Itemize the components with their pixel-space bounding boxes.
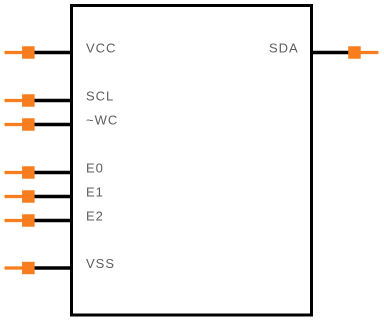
wire pin SCL [34, 99, 73, 102]
svg-text:VCC: VCC [86, 41, 116, 56]
pin label VSS [86, 256, 115, 271]
svg-text:E0: E0 [86, 161, 104, 176]
pin label E2 [86, 209, 104, 224]
wire pin VSS [34, 266, 73, 269]
pin label E1 [86, 185, 104, 200]
pin terminal SDA [348, 46, 378, 59]
svg-text:E2: E2 [86, 209, 104, 224]
pin terminal ~WC [5, 118, 35, 131]
pin label SDA [269, 41, 299, 56]
pin terminal VSS [5, 262, 35, 275]
svg-text:VSS: VSS [86, 256, 115, 271]
svg-text:~WC: ~WC [86, 113, 118, 128]
wire pin E2 [34, 219, 73, 222]
pin terminal VCC [5, 46, 35, 59]
wire pin E1 [34, 195, 73, 198]
pin terminal E2 [5, 214, 35, 227]
pin terminal SCL [5, 94, 35, 107]
wire pin E0 [34, 171, 73, 174]
pin terminal E0 [5, 166, 35, 179]
svg-text:E1: E1 [86, 185, 104, 200]
pin label VCC [86, 41, 116, 56]
IC body U1 [72, 6, 312, 316]
pin label E0 [86, 161, 104, 176]
svg-text:SCL: SCL [86, 89, 114, 104]
pin label ~WC [86, 113, 118, 128]
wire pin ~WC [34, 123, 73, 126]
wire pin VCC [34, 51, 73, 54]
pin label SCL [86, 89, 114, 104]
svg-text:SDA: SDA [269, 41, 299, 56]
pin terminal E1 [5, 190, 35, 203]
wire pin SDA [310, 51, 349, 54]
